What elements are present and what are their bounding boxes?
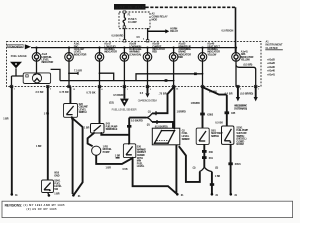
svg-text:0.5 BR/RD: 0.5 BR/RD — [113, 94, 125, 97]
wire lamp4 drop — [123, 61, 125, 86]
wire variant2 link — [152, 122, 173, 128]
label A1e40 — [207, 43, 220, 57]
connector inline fork — [210, 183, 214, 186]
label HORN RELAY — [170, 28, 178, 34]
wire bus to lamp A1e25 — [173, 48, 175, 53]
wire bus to lamp A1e1 — [68, 48, 70, 53]
svg-text:0.5 BR: 0.5 BR — [225, 93, 233, 96]
wire W1 ground left — [11, 87, 13, 194]
svg-text:X35/1: X35/1 — [235, 163, 242, 166]
wire fuse to cluster pin — [124, 29, 126, 42]
title box revisions — [2, 201, 293, 217]
label S6 text — [236, 126, 248, 146]
svg-text:2: 2 — [50, 89, 51, 91]
ground node 31 fork — [211, 193, 219, 197]
wire shutoff vertical — [226, 95, 228, 126]
junction node bus x36 — [35, 47, 37, 49]
wire fork right ground — [211, 172, 213, 194]
svg-text:0.5 BK: 0.5 BK — [215, 122, 223, 125]
wire cluster supply bus — [31, 47, 236, 49]
svg-text:10 AMP: 10 AMP — [128, 21, 137, 24]
wire bus to lamp A1e26 — [123, 48, 125, 53]
label B4 sensor text — [182, 129, 190, 140]
power label HOT IN RUN — [114, 4, 146, 10]
svg-text:0.5B: 0.5B — [123, 168, 128, 171]
wire bus to lamp A1p2 — [36, 48, 38, 53]
internal tick upper — [155, 111, 157, 115]
svg-text:0.5 BK/RD: 0.5 BK/RD — [131, 119, 143, 122]
junction pin x238 — [237, 86, 239, 88]
svg-text:(G2): (G2) — [109, 102, 114, 105]
wire gauge box to internal bus — [51, 69, 60, 80]
wire pump ground run — [96, 155, 132, 164]
junction lamp7 link — [202, 73, 204, 75]
svg-text:(1): (1) — [148, 111, 151, 114]
switch S3 pump relay contact — [91, 124, 105, 134]
indicator lamp A1e41 — [232, 53, 241, 62]
svg-text:SENSOR: SENSOR — [182, 138, 190, 141]
wire relay to cluster pin — [147, 28, 149, 42]
wire abs branch — [236, 65, 256, 86]
label A1e26 — [129, 43, 142, 57]
pin square fuse top — [123, 11, 126, 13]
wire fuel sender feed arrow — [123, 87, 125, 99]
svg-text:PUMP: PUMP — [103, 151, 110, 154]
wire variant stem drop to S4 — [128, 118, 130, 144]
pin square cluster bottom x12 — [10, 85, 13, 87]
svg-text:1 BR: 1 BR — [215, 175, 221, 178]
gauge movement A1p2 — [32, 74, 41, 83]
variant brace — [147, 113, 153, 122]
svg-text:2.5 BR: 2.5 BR — [36, 91, 44, 94]
connector X inline S5 b — [202, 156, 213, 160]
svg-text:X31: X31 — [209, 157, 214, 160]
pin square cluster bottom x238 — [237, 85, 240, 87]
ground node 31 sensor — [176, 193, 184, 197]
label S5 text — [211, 129, 223, 138]
svg-text:1: 1 — [258, 89, 259, 91]
svg-text:SWITCH: SWITCH — [211, 135, 219, 138]
indicator lamp A1e25 — [169, 53, 178, 62]
svg-text:0.5 RD/GN: 0.5 RD/GN — [222, 30, 234, 33]
arrow feed into cluster — [25, 44, 31, 49]
svg-text:INDICATOR: INDICATOR — [104, 51, 117, 54]
pin square cluster bottom x100 — [98, 85, 101, 87]
pin square cluster bottom x69 — [68, 85, 71, 87]
wire lamp7 diagonal to shutoff — [203, 87, 227, 94]
wire lamp3 jog — [100, 73, 114, 80]
wire S2 to ground 31 — [71, 117, 74, 194]
fuel gauge A1p2 assembly box — [23, 73, 50, 84]
connector inline shutoff — [225, 111, 236, 115]
junction lamp5 links — [147, 73, 149, 82]
svg-text:CLUSTER: CLUSTER — [266, 47, 278, 50]
wire lamp3 drop — [99, 61, 101, 86]
svg-text:1 BR: 1 BR — [115, 155, 121, 158]
pin square cluster top 2 — [146, 40, 149, 42]
svg-text:MOD: MOD — [152, 19, 158, 22]
wire charging system arrow — [147, 87, 149, 94]
wire variant stem — [129, 117, 146, 119]
svg-text:1 BR: 1 BR — [84, 127, 90, 130]
arrow to horn relay — [165, 29, 169, 33]
wire S6 ground drop — [230, 144, 232, 193]
wire to horn relay — [148, 30, 166, 32]
junction node bus x100 — [98, 47, 100, 49]
svg-text:SYSTEM (ABS): SYSTEM (ABS) — [234, 107, 247, 110]
junction sender box top — [173, 127, 175, 129]
variant fork bottom — [199, 167, 212, 172]
connector X26 inline — [200, 113, 214, 117]
label A1e41 — [241, 50, 254, 61]
pin square gauge box — [26, 75, 28, 77]
wire right power drop — [235, 7, 237, 53]
wire sender main drop — [173, 87, 175, 129]
svg-text:(1): (1) — [193, 166, 196, 169]
wire S3 left pin to pump — [88, 133, 94, 146]
off-page arrow G2 sender — [120, 99, 129, 107]
svg-text:+A1e40: +A1e40 — [267, 70, 276, 73]
switch S4 warning contact — [123, 143, 135, 159]
svg-text:FUEL LEVEL SENDER: FUEL LEVEL SENDER — [112, 107, 137, 111]
motor M3 fuel pump — [92, 146, 101, 155]
label A1e25 — [178, 43, 191, 60]
connector tick internal link — [194, 73, 197, 76]
svg-text:2: 2 — [240, 89, 241, 91]
svg-text:(CANADA): (CANADA) — [129, 53, 141, 56]
svg-text:NORM: NORM — [236, 143, 243, 146]
indicator lamp A1e30 — [143, 53, 152, 62]
pin square cluster bottom x148 — [146, 85, 149, 87]
junction pin x256 — [255, 86, 257, 88]
svg-text:7.5 BR: 7.5 BR — [74, 69, 82, 72]
junction lamp4 bus — [124, 80, 126, 82]
junction node bus x202 — [201, 47, 203, 49]
svg-text:+A1e26: +A1e26 — [267, 62, 276, 65]
wire W2 to fuel level switch — [47, 87, 49, 181]
label A1 INSTRUMENT CLUSTER — [265, 40, 283, 50]
junction lamp2 internal — [68, 72, 70, 74]
svg-text:1 RD: 1 RD — [44, 113, 50, 116]
junction node bus x69 — [68, 47, 70, 49]
pin list labels — [267, 59, 276, 77]
svg-text:X26/2: X26/2 — [207, 113, 214, 116]
wire bus to lamp A1e17 — [99, 48, 101, 53]
wire W4 to pump relay switch — [99, 87, 101, 124]
svg-text:X35: X35 — [231, 112, 236, 115]
wire S2 branch diagonal — [72, 118, 82, 194]
wire S1 to ground — [48, 193, 49, 196]
svg-text:X30: X30 — [209, 151, 214, 154]
fuse F1 — [123, 12, 125, 29]
indicator lamp A1e1 — [65, 53, 74, 62]
svg-text:RED: RED — [178, 56, 183, 59]
svg-text:INDICATOR: INDICATOR — [42, 61, 54, 64]
junction pin x48 — [47, 86, 49, 88]
svg-text:1 BR/RD: 1 BR/RD — [177, 110, 186, 113]
junction pin x12 — [11, 86, 13, 88]
label S3 text — [106, 123, 118, 132]
label A1e1 — [74, 43, 87, 57]
svg-text:+A1e41: +A1e41 — [267, 73, 276, 76]
pin square cluster top 1 — [123, 40, 126, 42]
junction pin x174 — [173, 86, 175, 88]
svg-text:12: 12 — [73, 89, 75, 91]
ground node 31 S6 — [230, 193, 238, 197]
indicator lamp A1p2 — [32, 53, 41, 62]
svg-text:(2) AS OF MY 1995: (2) AS OF MY 1995 — [27, 207, 58, 211]
svg-text:YELLOW: YELLOW — [241, 59, 251, 62]
wire lamp6 drop — [173, 61, 175, 86]
junction node bus x148 — [146, 47, 148, 49]
svg-text:YELLOW: YELLOW — [207, 53, 217, 56]
wire W3 to coolant switch — [69, 87, 71, 104]
svg-text:(2): (2) — [215, 167, 218, 170]
label A1e30 — [152, 43, 165, 54]
label FUSE 5 10 AMP — [128, 14, 138, 25]
label A1e17 — [104, 43, 117, 54]
wire internal link upper — [136, 74, 203, 81]
svg-text:LEVEL: LEVEL — [137, 165, 145, 168]
svg-text:1: 1 — [127, 89, 128, 91]
svg-text:1: 1 — [14, 89, 15, 91]
ground node S1 — [48, 194, 51, 197]
label S4 text column — [137, 146, 147, 169]
label A2 COMB RELAY MODULE — [152, 12, 168, 21]
wire abs lamp feed 1 — [237, 87, 239, 98]
ground node 31 coolant — [72, 194, 81, 198]
wire abs lamp feed 2 — [255, 87, 257, 98]
connector X inline S5 a — [202, 150, 213, 154]
svg-text:SWITCH: SWITCH — [79, 111, 87, 114]
pin square cluster bottom x202 — [201, 85, 204, 87]
label S2 text — [79, 103, 89, 114]
svg-text:FUEL GAUGE: FUEL GAUGE — [11, 55, 27, 58]
junction node bus x236 — [235, 47, 237, 49]
pin square cluster bottom x124 — [123, 85, 126, 87]
svg-text:3: 3 — [150, 89, 151, 91]
wire bus to lamp A1e41 — [235, 48, 237, 53]
junction pin x124 — [123, 86, 125, 88]
svg-text:(2): (2) — [147, 123, 150, 126]
pin square cluster bottom x256 — [254, 85, 257, 87]
svg-text:0.5 BK: 0.5 BK — [209, 90, 217, 93]
wire lamp2 drop — [68, 61, 70, 86]
svg-text:RELAY: RELAY — [170, 30, 178, 33]
switch S6 shutoff — [222, 126, 234, 144]
label ANTI-LOCK BRAKE SYSTEM — [234, 105, 247, 111]
wire lamp7 pin drop — [202, 87, 204, 129]
label A1p2 fuel gauge lamp — [42, 53, 54, 64]
svg-text:1 BR: 1 BR — [3, 118, 9, 121]
wire S4 ground bus — [133, 158, 178, 195]
svg-text:CHARGING SYSTEM: CHARGING SYSTEM — [138, 98, 157, 102]
wire lamp1 to gauge — [36, 61, 38, 73]
junction pin x148 — [147, 86, 149, 88]
wire internal return bus — [60, 80, 174, 82]
junction lamp3 — [99, 72, 101, 74]
svg-text:1 BR: 1 BR — [106, 167, 112, 170]
svg-text:.75 BR: .75 BR — [159, 92, 167, 95]
svg-text:1 BK/RD: 1 BK/RD — [191, 102, 200, 105]
svg-text:SW MODULE: SW MODULE — [106, 128, 118, 131]
svg-text:1: 1 — [119, 38, 120, 40]
fuse box F1 dashed — [119, 12, 150, 29]
wire S3 right pin link — [101, 133, 129, 135]
instrument cluster A1 dashed box — [7, 42, 262, 87]
pin square fuse bottom — [123, 26, 126, 28]
indicator lamp A1e17 — [95, 53, 104, 62]
svg-text:41: 41 — [176, 88, 178, 91]
svg-text:HOT IN RUN: HOT IN RUN — [116, 5, 145, 9]
svg-text:+A1e30: +A1e30 — [267, 66, 276, 69]
svg-text:0.5 BK/RD: 0.5 BK/RD — [112, 35, 124, 38]
switch S5 seat belt contact — [196, 128, 209, 144]
wire lamp7 drop — [202, 61, 204, 86]
connector inline stem — [127, 125, 131, 128]
wire S5 bottom drop — [203, 144, 205, 167]
internal tick lower — [156, 120, 158, 124]
svg-text:FROM IGNITION: FROM IGNITION — [8, 45, 22, 48]
svg-text:(0.5 BR): (0.5 BR) — [244, 64, 253, 67]
junction pin x100 — [99, 86, 101, 88]
junction node bus x174 — [173, 47, 175, 49]
label 1 BR S4 left — [115, 155, 121, 158]
label S1 text — [54, 172, 62, 196]
svg-text:INDICATOR: INDICATOR — [74, 53, 87, 56]
ground node 31 left — [11, 193, 19, 197]
indicator lamp A1e40 — [198, 53, 207, 62]
fuel level sensor B4 box — [152, 128, 180, 145]
wire sensor variant diagonal — [179, 146, 200, 182]
junction S2 bottom — [71, 116, 73, 118]
wire lamp6 pin diagonal branch — [156, 87, 174, 113]
pin square cluster bottom x174 — [172, 85, 175, 87]
wire lamp8 drop — [235, 61, 237, 86]
svg-text:0.75 BR: 0.75 BR — [59, 91, 68, 94]
svg-text:GND: GND — [54, 174, 60, 177]
svg-text:(1) MY 1994 AND MY 1995: (1) MY 1994 AND MY 1995 — [24, 203, 66, 207]
wire dashed feed to instrument cluster — [146, 6, 236, 8]
wire bus to lamp A1e30 — [147, 48, 149, 53]
junction pin x69 — [68, 86, 70, 88]
wire lamp5 drop — [147, 61, 149, 86]
wire variant1 link — [152, 112, 156, 114]
svg-text:(0.5 BR/RD): (0.5 BR/RD) — [240, 93, 253, 96]
ground symbol in cluster — [10, 62, 22, 69]
arrow to ABS 2 — [254, 97, 258, 101]
label M3 FUEL PUMP — [103, 145, 113, 154]
switch S1 fuel level — [42, 180, 54, 193]
svg-text:0.75 BK: 0.75 BK — [86, 91, 95, 94]
wire ground stem — [12, 68, 24, 86]
svg-text:RED: RED — [152, 51, 157, 54]
arrow to charging system — [145, 93, 149, 97]
svg-text:1 BR: 1 BR — [36, 145, 42, 148]
wire bus to lamp A1e40 — [202, 48, 204, 53]
svg-text:1 BR: 1 BR — [54, 193, 60, 196]
switch S2 coolant level — [64, 104, 78, 118]
svg-text:REVISIONS:: REVISIONS: — [5, 203, 23, 207]
connector tick internal bus — [165, 79, 168, 82]
internal terminator 7.5BR — [69, 69, 82, 74]
pin square cluster bottom x48 — [47, 85, 50, 87]
wire sensor ground drop — [175, 145, 177, 194]
svg-text:+A1e25: +A1e25 — [267, 59, 276, 62]
node label printed circuit — [8, 44, 23, 48]
junction lamp6 bus — [173, 80, 175, 82]
arrow to ABS 1 — [236, 97, 240, 101]
junction node bus x124 — [123, 47, 125, 49]
connector inline S6 — [228, 162, 241, 166]
indicator lamp A1e26 — [120, 53, 129, 62]
junction pin x202 — [202, 86, 204, 88]
